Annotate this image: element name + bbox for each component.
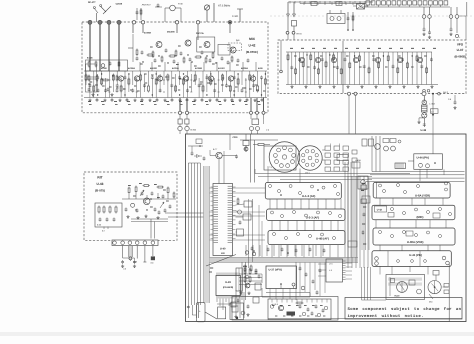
svg-text:M-8: M-8 xyxy=(134,261,137,264)
svg-text:CN-1: CN-1 xyxy=(305,172,311,175)
svg-text:U-37: U-37 xyxy=(457,48,464,52)
svg-text:B-2011: B-2011 xyxy=(172,67,180,70)
svg-text:C-8: C-8 xyxy=(448,98,451,101)
svg-text:(CD-MKR): (CD-MKR) xyxy=(223,286,234,289)
svg-text:ANT RLY: ANT RLY xyxy=(142,4,152,7)
svg-text:U-42: U-42 xyxy=(249,44,256,48)
svg-text:U-4: U-4 xyxy=(329,263,333,266)
svg-text:B-3008: B-3008 xyxy=(144,32,152,35)
svg-text:U-8: U-8 xyxy=(221,252,225,255)
svg-text:2SC: 2SC xyxy=(429,301,433,304)
svg-text:1-4: 1-4 xyxy=(266,129,270,132)
svg-text:RA-8: RA-8 xyxy=(297,33,303,36)
svg-text:U-38: U-38 xyxy=(421,129,427,132)
svg-text:MIX: MIX xyxy=(249,37,256,41)
svg-text:B-1020: B-1020 xyxy=(150,67,158,70)
svg-text:(B-075): (B-075) xyxy=(95,189,105,193)
svg-text:(MIC): (MIC) xyxy=(417,215,424,219)
svg-text:B-3004: B-3004 xyxy=(128,67,136,70)
svg-text:B-20: B-20 xyxy=(243,265,247,268)
svg-text:+: + xyxy=(459,36,461,39)
svg-text:U-37 (VFO): U-37 (VFO) xyxy=(269,268,283,271)
svg-text:(B-070C): (B-070C) xyxy=(246,50,258,54)
svg-text:VFO: VFO xyxy=(457,43,464,47)
svg-text:B-90: B-90 xyxy=(258,67,263,70)
svg-text:RA-3: RA-3 xyxy=(443,91,449,94)
svg-text:B-3008: B-3008 xyxy=(195,67,203,70)
svg-text:U-6A (YGR): U-6A (YGR) xyxy=(415,194,430,198)
svg-text:improvement without notice.: improvement without notice. xyxy=(348,314,424,319)
svg-text:U-4B (AF): U-4B (AF) xyxy=(316,237,329,241)
svg-text:B-106: B-106 xyxy=(87,57,93,60)
svg-text:R-30: R-30 xyxy=(178,3,183,6)
svg-text:B-20: B-20 xyxy=(97,224,101,227)
svg-text:U-39: U-39 xyxy=(225,281,231,284)
svg-text:B-7: B-7 xyxy=(102,230,105,233)
svg-text:RL30: RL30 xyxy=(395,295,401,298)
svg-text:RIT: RIT xyxy=(97,176,102,180)
svg-text:B-204: B-204 xyxy=(191,129,197,132)
svg-text:U-43A: U-43A xyxy=(355,159,361,162)
svg-text:B-1007: B-1007 xyxy=(218,67,226,70)
svg-text:B-300: B-300 xyxy=(101,67,108,70)
svg-text:RF ATT: RF ATT xyxy=(88,1,96,4)
svg-text:L-302: L-302 xyxy=(430,103,436,106)
svg-text:U-30A (VOX): U-30A (VOX) xyxy=(407,240,424,244)
svg-text:B-2004: B-2004 xyxy=(241,67,249,70)
svg-text:AT 3.5MHz: AT 3.5MHz xyxy=(218,5,231,8)
svg-text:B-77: B-77 xyxy=(213,148,218,151)
svg-text:2SC735: 2SC735 xyxy=(196,32,204,35)
svg-text:U-43: U-43 xyxy=(97,182,104,186)
svg-text:C2030: C2030 xyxy=(116,3,123,6)
svg-text:(B-0608): (B-0608) xyxy=(454,55,465,59)
svg-text:U-44 (PA): U-44 (PA) xyxy=(417,156,429,160)
svg-text:1-7: 1-7 xyxy=(431,110,434,113)
svg-text:C203: C203 xyxy=(233,136,239,139)
svg-text:J=0: J=0 xyxy=(123,268,126,271)
svg-text:GD: GD xyxy=(151,262,154,265)
svg-text:+: + xyxy=(199,310,201,313)
svg-text:Some component subject to chan: Some component subject to change for an xyxy=(348,307,462,312)
svg-text:2SC380: 2SC380 xyxy=(167,31,175,34)
svg-text:C-301: C-301 xyxy=(232,15,239,18)
svg-text:U-1-3 (AF): U-1-3 (AF) xyxy=(302,194,315,198)
svg-text:L-3: L-3 xyxy=(329,269,333,272)
svg-text:Q-2: Q-2 xyxy=(236,39,240,42)
svg-text:U-2-3 (AF): U-2-3 (AF) xyxy=(306,216,319,220)
svg-text:U-40: U-40 xyxy=(220,248,226,251)
svg-text:U-42: U-42 xyxy=(377,209,383,212)
